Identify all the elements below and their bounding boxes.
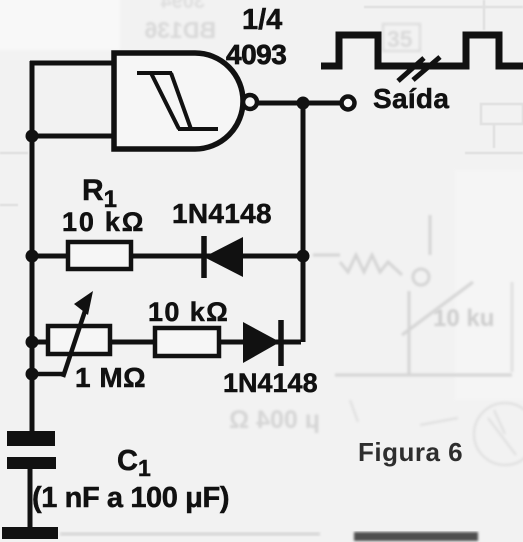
svg-text:(1 nF a 100 μF): (1 nF a 100 μF) xyxy=(32,482,229,514)
node dot wiper return xyxy=(26,368,39,381)
ghost transistor circle bottom right xyxy=(350,400,523,465)
wire right rail xyxy=(301,103,306,342)
ground bar xyxy=(2,527,58,539)
svg-text:10 kΩ: 10 kΩ xyxy=(62,207,145,237)
op-amp gate U1 4093 NAND body xyxy=(114,53,243,149)
capacitor C1 bottom plate xyxy=(7,457,56,469)
wire wiper return xyxy=(32,372,64,377)
svg-text:3094: 3094 xyxy=(160,0,205,13)
output terminal circle xyxy=(342,97,355,110)
resistor 10k row2 box xyxy=(155,328,219,356)
node dot row1 right xyxy=(297,250,310,263)
svg-text:10 ku: 10 ku xyxy=(433,305,494,332)
ghost grid lines upper right xyxy=(0,0,523,205)
wire left rail xyxy=(30,61,35,433)
ghost gray bar bottom right xyxy=(354,532,478,541)
svg-text:10 kΩ: 10 kΩ xyxy=(148,297,229,327)
resistor R1 box xyxy=(68,242,131,269)
wire gate input 2 xyxy=(30,134,116,139)
svg-text:μ 004 Ω: μ 004 Ω xyxy=(229,406,320,434)
svg-text:4093: 4093 xyxy=(226,39,286,70)
wire gate output xyxy=(257,101,341,106)
svg-text:Saída: Saída xyxy=(373,83,449,114)
ghost bleed-through text BD136 (mirrored) xyxy=(144,0,216,43)
svg-text:1/4: 1/4 xyxy=(242,4,282,36)
schmitt hysteresis symbol xyxy=(137,73,218,129)
diode D2 pointing right xyxy=(243,320,281,366)
wire gate input 1 xyxy=(30,61,116,66)
svg-text:35: 35 xyxy=(387,26,413,52)
wire row 2 xyxy=(32,340,301,345)
ghost box with 35 xyxy=(383,24,420,51)
potentiometer wiper arrow xyxy=(63,291,93,377)
node dot row1 left xyxy=(26,250,39,263)
svg-text:Figura 6: Figura 6 xyxy=(358,437,463,467)
diode D1 pointing left xyxy=(204,236,243,278)
node output junction xyxy=(297,97,310,110)
svg-text:BD136: BD136 xyxy=(144,17,216,43)
inverter bubble xyxy=(243,95,257,109)
wire row 1 xyxy=(32,254,303,259)
waveform break slashes xyxy=(398,57,440,81)
waveform output square wave xyxy=(321,35,523,66)
capacitor C1 top plate xyxy=(7,431,55,446)
svg-text:1N4148: 1N4148 xyxy=(223,368,318,398)
ghost resistor + wiring mid right xyxy=(313,215,512,375)
node junction dot input 2 xyxy=(26,130,39,143)
svg-text:1 MΩ: 1 MΩ xyxy=(75,362,146,393)
potentiometer P1 box xyxy=(48,326,110,354)
node dot row2 left xyxy=(26,336,39,349)
wire below capacitor xyxy=(28,469,33,530)
svg-text:1N4148: 1N4148 xyxy=(172,198,272,229)
